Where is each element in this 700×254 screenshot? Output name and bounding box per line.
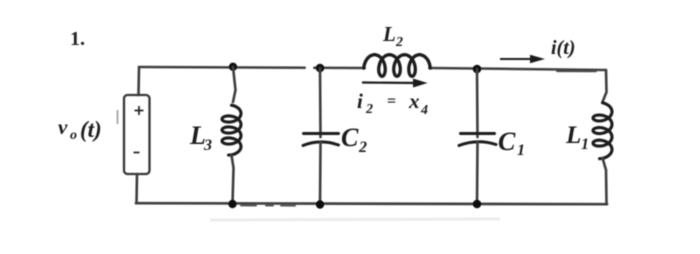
wire: bottom rail [136, 203, 607, 204]
svg-text:o: o [70, 128, 77, 143]
svg-text:=: = [387, 93, 396, 110]
voltage source plus mark [135, 106, 144, 115]
arrow: i2 current direction under L2 [362, 79, 428, 88]
inductor L1 [593, 103, 612, 159]
junction: bottom of L3 [228, 200, 236, 208]
label i2 = x4 [357, 89, 428, 118]
stray scan dash left of source box [117, 110, 119, 124]
junction: top of C1 [473, 65, 482, 74]
svg-text:3: 3 [203, 137, 212, 154]
wire: source top lead [137, 67, 140, 95]
svg-text:i: i [357, 89, 363, 113]
capacitor C2 bottom plate (curved) [303, 142, 339, 146]
scan artifact: double-stroke dashes on bottom rail [241, 204, 295, 206]
svg-text:x: x [408, 89, 420, 113]
svg-text:4: 4 [420, 103, 428, 118]
capacitor C1 top plate [461, 132, 495, 135]
capacitor C2 top plate [304, 132, 339, 135]
voltage source minus mark [134, 152, 140, 154]
wire: top rail, source corner to L2 left terminal [139, 67, 365, 68]
label C1 [498, 127, 525, 159]
svg-text:2: 2 [358, 139, 367, 156]
label L1 [565, 122, 589, 153]
svg-text:1: 1 [581, 136, 589, 153]
label i(t) [551, 37, 575, 59]
wire: source bottom lead [135, 174, 138, 203]
svg-text:2: 2 [395, 35, 403, 50]
wire: right branch bottom lead [603, 158, 607, 204]
wire: C2 top lead [319, 68, 322, 137]
svg-text:(t): (t) [80, 117, 102, 142]
wire: L3 top lead [233, 67, 236, 102]
label v_o(t) [58, 115, 102, 143]
voltage source Vo body [124, 95, 150, 174]
inductor L2 [364, 55, 431, 77]
scan smear artifact near bottom [210, 219, 500, 220]
wire: L3 bottom lead [232, 155, 234, 204]
inductor L3 [222, 105, 241, 155]
wire: top rail, L2 right terminal to top-right corner [429, 68, 606, 70]
junction: top of C2 [316, 64, 325, 73]
svg-text:i(t): i(t) [551, 37, 575, 59]
junction: top of L3 [229, 63, 237, 71]
arrow: i(t) output current [500, 55, 545, 63]
label L2 [382, 22, 403, 50]
svg-text:C: C [498, 127, 516, 156]
junction: bottom of C2 [316, 200, 324, 208]
svg-text:L: L [565, 122, 581, 149]
wire: C1 bottom lead [476, 142, 479, 204]
svg-text:2: 2 [365, 102, 373, 117]
scan artifact: faded gap in top rail left of C2 [306, 66, 313, 69]
wire: C2 bottom lead [319, 142, 322, 205]
label C2 [341, 123, 367, 156]
label L3 [189, 121, 212, 154]
svg-text:C: C [341, 123, 359, 152]
svg-text:1.: 1. [70, 28, 85, 50]
svg-text:v: v [58, 115, 68, 139]
svg-text:1: 1 [517, 142, 525, 159]
junction: bottom of C1 [473, 200, 482, 209]
label "1." problem number [70, 28, 85, 50]
capacitor C1 bottom plate (curved) [459, 142, 496, 146]
wire: right branch top lead [603, 70, 607, 102]
svg-text:L: L [382, 22, 396, 46]
wire: C1 top lead [476, 69, 479, 137]
scan artifact: doubled segment on top rail right [557, 70, 596, 72]
